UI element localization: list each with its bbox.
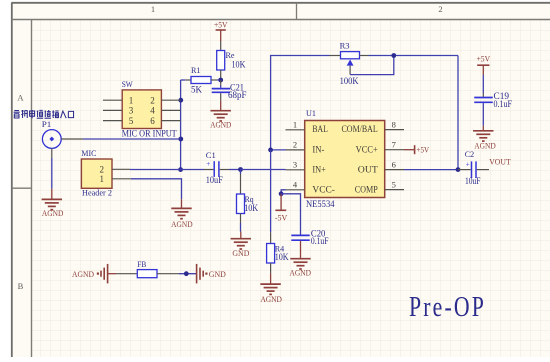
ground AGND (below C21) [210, 101, 231, 130]
svg-text:Rq: Rq [245, 194, 255, 204]
connector P1 [42, 119, 83, 158]
wire: AGND port to FB [116, 273, 137, 275]
ground AGND (below P1) [42, 189, 64, 218]
resistor R1 5K [185, 65, 217, 95]
resistor R4 10K [267, 232, 289, 273]
svg-text:1: 1 [293, 120, 297, 130]
wire: output column down [457, 56, 459, 170]
svg-text:AGND: AGND [474, 140, 496, 150]
svg-text:NE5534: NE5534 [306, 199, 335, 209]
wire: P1 to AGND [51, 158, 53, 189]
svg-text:Re: Re [226, 50, 235, 60]
wire: input bus (R1 left down to C1) [181, 80, 186, 170]
wire: junction to C1 [181, 169, 204, 171]
svg-text:AGND: AGND [210, 119, 231, 129]
ground AGND (below C20) [290, 241, 312, 278]
svg-text:1: 1 [100, 174, 105, 184]
wire: FB to GND port [179, 273, 197, 275]
svg-text:B: B [18, 281, 24, 291]
svg-text:COM/BAL: COM/BAL [342, 125, 378, 135]
svg-text:5K: 5K [191, 86, 202, 96]
power port AGND (left of FB) [72, 264, 116, 284]
svg-text:+: + [206, 159, 210, 168]
svg-text:R1: R1 [191, 65, 201, 75]
node: OUT/C2 junction [456, 167, 461, 172]
wire: MIC pin1 to AGND [131, 179, 182, 200]
svg-text:5: 5 [392, 179, 396, 189]
svg-text:8: 8 [392, 119, 396, 129]
svg-text:100K: 100K [340, 77, 359, 87]
svg-text:+: + [466, 159, 470, 168]
svg-text:MIC: MIC [81, 148, 96, 158]
switch SW (MIC OR INPUT) [103, 79, 181, 139]
ground AGND (MIC pin1) [171, 199, 193, 229]
resistor Rq 10K [237, 170, 259, 232]
capacitor C2 10uF (polarized) [458, 149, 489, 186]
svg-text:U1: U1 [306, 108, 316, 118]
power -5V [275, 194, 288, 223]
svg-text:3: 3 [293, 160, 297, 170]
op-amp U1 NE5534 [286, 108, 405, 209]
wire: junction to U1 IN+ [241, 169, 286, 171]
wire: R1 output to Re/C21 junction [217, 79, 221, 81]
svg-text:AGND: AGND [42, 208, 64, 218]
svg-text:FB: FB [137, 259, 146, 269]
node: SW pin2 junction [178, 98, 183, 103]
svg-text:0.1uF: 0.1uF [494, 99, 513, 109]
svg-text:2: 2 [293, 140, 297, 150]
wire: P1 to input bus [83, 138, 181, 140]
svg-text:10K: 10K [244, 204, 258, 214]
power +5V (pin 7) [404, 144, 430, 154]
svg-text:4: 4 [150, 106, 155, 116]
svg-text:+5V: +5V [214, 19, 228, 29]
svg-text:10K: 10K [275, 253, 289, 263]
svg-text:GND: GND [232, 248, 249, 258]
node: C1/Rq junction [238, 167, 243, 172]
svg-text:Pre-OP: Pre-OP [409, 292, 486, 323]
svg-text:2: 2 [150, 95, 155, 105]
svg-text:AGND: AGND [171, 219, 193, 229]
svg-text:-5V: -5V [275, 212, 288, 222]
capacitor C20 0.1uF [291, 229, 328, 246]
svg-text:C2: C2 [465, 149, 475, 159]
ground GND (below Rq) [231, 232, 251, 259]
wire: +5V to C19 [482, 75, 484, 93]
potentiometer R3 100K [330, 41, 369, 87]
node: P1 wire junction [178, 137, 183, 142]
svg-text:R4: R4 [275, 244, 285, 254]
wire: C1 to Rq junction [229, 169, 241, 171]
ferrite bead FB [137, 259, 179, 278]
net label: audio single-channel input (CJK) [14, 110, 74, 118]
svg-text:R3: R3 [340, 41, 350, 51]
wire: IN- net up to R3 [271, 56, 330, 150]
svg-text:VCC-: VCC- [312, 185, 335, 195]
connector MIC (Header 2) [81, 148, 131, 198]
wire: R3 right to output column [369, 55, 459, 57]
svg-text:0.1uF: 0.1uF [311, 236, 329, 246]
svg-text:VOUT: VOUT [489, 157, 511, 167]
svg-text:SW: SW [122, 79, 133, 89]
wire: MIC pin2 to junction [130, 169, 181, 171]
svg-text:GND: GND [209, 269, 226, 279]
svg-text:P1: P1 [42, 119, 52, 129]
svg-text:A: A [17, 92, 24, 102]
svg-text:1: 1 [129, 95, 134, 105]
wire: OUT pin to output column [404, 169, 458, 171]
svg-text:AGND: AGND [260, 294, 282, 304]
node: R3/loop junction [391, 53, 396, 58]
svg-text:OUT: OUT [358, 165, 378, 175]
power +5V (top, feeds Re) [214, 19, 228, 41]
svg-text:BAL: BAL [312, 125, 328, 135]
svg-text:6: 6 [150, 116, 155, 126]
svg-text:3: 3 [129, 106, 134, 116]
svg-text:2: 2 [438, 4, 442, 14]
wire: IN- column down to R4 [270, 150, 272, 232]
power port GND (right of FB) [197, 264, 226, 284]
svg-text:6: 6 [392, 159, 396, 169]
node: -5V junction [279, 191, 284, 196]
power +5V (C19) [477, 53, 491, 75]
svg-text:5: 5 [129, 116, 134, 126]
node: FB/GND junction [184, 271, 189, 276]
svg-text:IN-: IN- [312, 145, 324, 155]
node: MIC/C1 junction [178, 167, 183, 172]
wire: -5V node to C20 [281, 194, 300, 235]
svg-text:2: 2 [100, 165, 105, 175]
capacitor C1 10uF (polarized) [204, 150, 229, 185]
svg-text:AGND: AGND [290, 268, 312, 278]
node: Re/R1/C21 junction [218, 78, 223, 83]
ground AGND (below R4) [260, 273, 282, 304]
wire: R3 wiper feedback loop [350, 56, 394, 75]
svg-text:IN+: IN+ [312, 165, 326, 175]
capacitor C21 68pF [212, 80, 247, 101]
svg-text:10uF: 10uF [465, 176, 481, 186]
resistor Re 10K [217, 41, 246, 80]
svg-text:+5V: +5V [477, 53, 491, 63]
wire: C19 to AGND [482, 103, 484, 126]
svg-text:AGND: AGND [72, 269, 94, 279]
svg-text:Header 2: Header 2 [82, 188, 112, 198]
svg-text:68pF: 68pF [228, 90, 247, 100]
ground AGND (below C19) [473, 126, 496, 151]
svg-text:COMP: COMP [355, 185, 378, 195]
svg-text:10uF: 10uF [206, 175, 223, 185]
node: R3 loop / IN- junction [268, 148, 273, 153]
svg-text:VCC+: VCC+ [356, 145, 378, 155]
svg-text:7: 7 [392, 140, 396, 150]
svg-text:MIC OR INPUT: MIC OR INPUT [122, 129, 177, 139]
capacitor C19 0.1uF [474, 91, 512, 109]
wire: VCC- pin to -5V node [281, 190, 285, 194]
svg-text:10K: 10K [232, 61, 246, 71]
svg-text:1: 1 [151, 4, 155, 14]
svg-text:+5V: +5V [417, 144, 430, 154]
